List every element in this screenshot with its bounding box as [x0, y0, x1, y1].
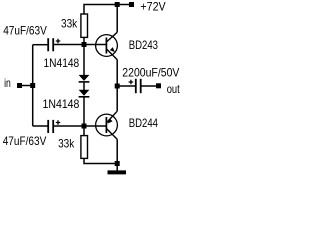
svg-text:47uF/63V: 47uF/63V	[3, 23, 47, 37]
junction node B (bottom)	[82, 124, 87, 129]
capacitor 2200uF/50V (output)	[117, 66, 179, 94]
capacitor 47uF/63V (top)	[3, 23, 60, 51]
power terminal +72V	[129, 0, 166, 13]
capacitor 47uF/63V (bottom)	[3, 120, 61, 148]
junction ground node	[115, 161, 120, 166]
svg-text:1N4148: 1N4148	[43, 97, 80, 111]
svg-text:1N4148: 1N4148	[44, 56, 80, 70]
transistor BD244 Q2 (PNP)	[96, 111, 159, 139]
wire output node to Q2 emitter	[116, 86, 118, 111]
junction node A (top)	[82, 42, 87, 47]
junction rail/collector	[115, 2, 120, 7]
wire input vertical	[32, 45, 34, 126]
ground	[108, 164, 127, 173]
svg-text:out: out	[167, 82, 181, 96]
diode 1N4148 D2 (bottom)	[43, 90, 90, 111]
wire Q2 collector to ground junction	[116, 139, 118, 163]
diode 1N4148 D1 (top)	[44, 56, 90, 82]
wire Q1 collector to rail	[116, 5, 118, 33]
svg-text:47uF/63V: 47uF/63V	[3, 134, 47, 148]
wire junction A to diode D1	[83, 45, 85, 76]
resistor 33k (bottom)	[58, 126, 87, 158]
wire R1 bottom lead	[83, 37, 85, 44]
svg-text:2200uF/50V: 2200uF/50V	[122, 66, 179, 80]
junction input node	[30, 83, 35, 88]
resistor 33k (top)	[61, 14, 88, 37]
wire R2 bottom lead to ground junction	[84, 158, 117, 163]
wire D2 to junction B	[83, 98, 85, 127]
transistor BD243 Q1 (NPN)	[96, 32, 159, 59]
wire bottom row (cap to base)	[53, 125, 106, 127]
svg-text:in: in	[4, 76, 11, 90]
output terminal out	[156, 82, 180, 96]
input terminal in	[4, 76, 33, 90]
wire Q1 emitter to output node	[116, 60, 118, 86]
svg-text:33k: 33k	[58, 137, 75, 151]
svg-text:33k: 33k	[61, 17, 78, 31]
wire top row (cap to base)	[53, 44, 106, 46]
svg-text:BD243: BD243	[129, 38, 158, 52]
svg-text:BD244: BD244	[129, 116, 158, 130]
svg-text:+72V: +72V	[140, 0, 165, 13]
junction output node	[115, 84, 120, 89]
wire top rail (+72V)	[84, 5, 130, 15]
wire D1 to D2	[83, 83, 85, 90]
